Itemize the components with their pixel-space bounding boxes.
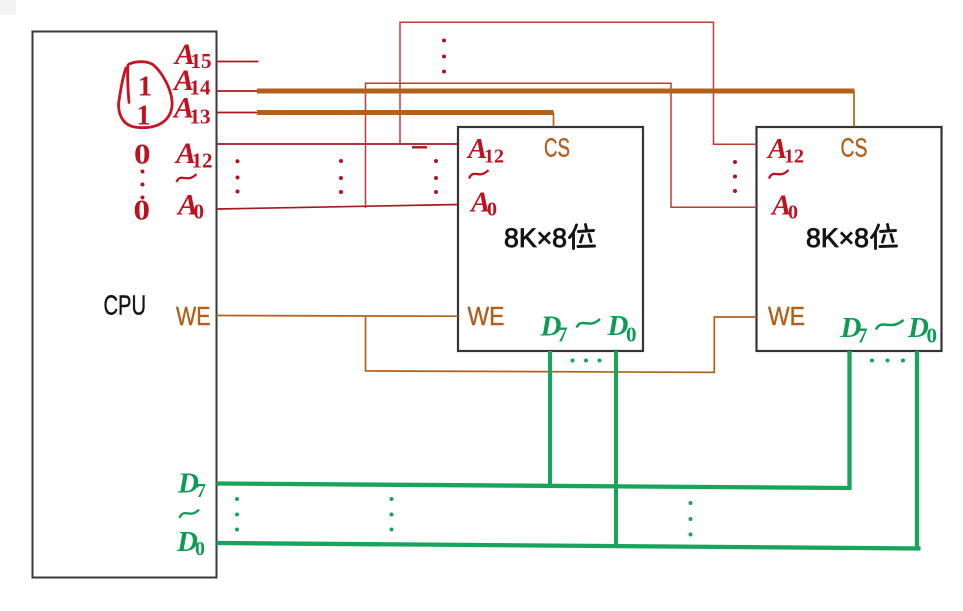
svg-text:12: 12 <box>784 146 804 168</box>
svg-text:0: 0 <box>134 139 151 171</box>
svg-text:7: 7 <box>196 480 206 502</box>
svg-text:0: 0 <box>927 324 938 348</box>
svg-text:7: 7 <box>557 323 568 347</box>
svg-text:0: 0 <box>487 199 497 221</box>
svg-text:WE: WE <box>176 303 211 331</box>
svg-text:0: 0 <box>626 323 637 347</box>
svg-text:13: 13 <box>190 105 211 129</box>
svg-text:7: 7 <box>857 324 868 348</box>
svg-text:1: 1 <box>138 72 152 103</box>
svg-text:8K×8: 8K×8 <box>806 223 869 253</box>
svg-text:12: 12 <box>484 146 504 168</box>
svg-text:WE: WE <box>468 301 505 331</box>
svg-text:0: 0 <box>194 200 205 224</box>
svg-text:12: 12 <box>192 149 213 173</box>
svg-text:0: 0 <box>195 538 205 560</box>
svg-text:CPU: CPU <box>104 290 147 321</box>
svg-text:CS: CS <box>544 133 570 163</box>
svg-text:8K×8: 8K×8 <box>504 223 567 253</box>
svg-text:CS: CS <box>841 133 868 163</box>
svg-text:WE: WE <box>768 301 805 331</box>
svg-text:0: 0 <box>134 195 151 227</box>
svg-text:0: 0 <box>788 202 798 224</box>
svg-text:1: 1 <box>137 101 151 132</box>
